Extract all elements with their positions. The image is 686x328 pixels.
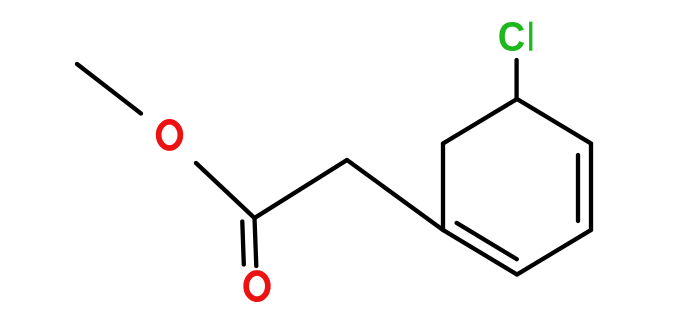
ring edge NW-N xyxy=(443,99,517,144)
node O1: ester oxygen label xyxy=(159,122,181,148)
wire: carbonyl C to CH2 bond xyxy=(255,160,348,218)
node Cl: chlorine label, letter l stem xyxy=(529,22,532,51)
ring edge NE-SE double bond inner line xyxy=(576,155,580,221)
wire: CH2 to ring SW vertex bond xyxy=(347,160,443,230)
wire: methyl CH3 to ester O bond xyxy=(77,64,141,114)
svg-text:C: C xyxy=(498,14,525,60)
ring edge SE-S xyxy=(517,230,591,275)
ring edge SW-NW xyxy=(441,144,445,231)
wire: C=O double bond main line xyxy=(255,218,257,266)
node O2: carbonyl oxygen label xyxy=(246,273,268,299)
wire: C=O double bond inner line xyxy=(242,222,244,265)
wire: ester O to carbonyl C bond xyxy=(196,163,255,218)
ring edge S-SW (double bond outer) xyxy=(443,230,517,275)
ring edge NE-SE (double bond outer) xyxy=(589,144,593,231)
ring edge S-SW double bond inner line xyxy=(457,223,517,259)
wire: ring N vertex to Cl bond xyxy=(514,60,518,99)
ring edge N-NE xyxy=(517,99,591,144)
